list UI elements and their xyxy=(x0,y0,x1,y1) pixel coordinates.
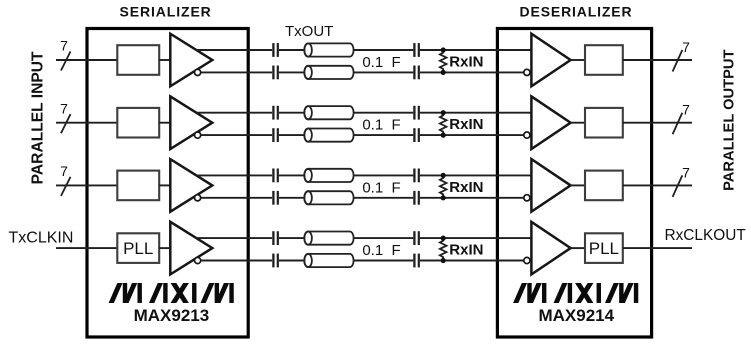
output register block 2 xyxy=(585,108,623,138)
wire: receiver 2 to output register xyxy=(571,122,585,124)
wire: parallel input 3 xyxy=(56,184,117,186)
wire: C2A to cable xyxy=(279,112,305,114)
capacitor C3D (series, - line) xyxy=(413,191,415,205)
MAXIM logo (serializer) xyxy=(109,283,234,303)
termination resistor R4 with junction dots xyxy=(440,238,447,260)
capacitor C1D (series, - line) xyxy=(413,66,415,80)
svg-text:TxCLKIN: TxCLKIN xyxy=(9,229,74,246)
wire: T4A to C4C xyxy=(354,237,414,239)
bus slash input 1 xyxy=(61,52,71,71)
capacitor C1A (series, + line) xyxy=(272,43,274,57)
svg-text:RxIN: RxIN xyxy=(449,54,483,71)
input register block 3 xyxy=(117,171,159,201)
svg-text:TxOUT: TxOUT xyxy=(285,23,333,40)
svg-text:7: 7 xyxy=(682,39,690,55)
wire: register 3 to driver xyxy=(159,184,170,186)
inversion bubble receiver 2 xyxy=(524,132,530,138)
inversion bubble driver 1 xyxy=(195,69,201,75)
wire: C3D to receiver - input xyxy=(420,197,524,199)
wire: C1A to cable xyxy=(279,49,305,51)
svg-text:DESERIALIZER: DESERIALIZER xyxy=(520,4,633,20)
capacitor C2D (series, - line) xyxy=(413,128,415,142)
wire: C2B to cable xyxy=(279,134,305,136)
svg-text:0.1 F: 0.1 F xyxy=(362,242,400,259)
bus slash output 1 xyxy=(673,50,683,72)
wire: C1C to receiver + input xyxy=(420,49,532,51)
input register block 2 xyxy=(117,108,159,138)
svg-text:PLL: PLL xyxy=(589,239,619,258)
wire: receiver 1 to output register xyxy=(571,59,585,61)
wire: driver 3 inverting output xyxy=(201,197,272,199)
svg-text:7: 7 xyxy=(60,100,68,116)
transmission line T1A (+ line) xyxy=(304,43,353,56)
wire: T4B to C4D xyxy=(354,260,414,262)
MAXIM logo (deserializer) xyxy=(513,283,638,303)
wire: C3A to cable xyxy=(279,174,305,176)
svg-text:SERIALIZER: SERIALIZER xyxy=(119,4,211,20)
wire: driver 1 noninverting output xyxy=(196,49,273,51)
capacitor C2A (series, + line) xyxy=(272,106,274,120)
wire: parallel output 4 xyxy=(623,247,692,249)
wire: T3A to C3C xyxy=(354,174,414,176)
capacitor C4D (series, - line) xyxy=(413,254,415,268)
svg-text:MAX9213: MAX9213 xyxy=(134,306,210,325)
svg-text:RxCLKOUT: RxCLKOUT xyxy=(665,227,747,244)
LVDS driver U1C xyxy=(170,159,212,212)
svg-text:0.1 F: 0.1 F xyxy=(362,54,400,71)
svg-text:MAX9214: MAX9214 xyxy=(538,306,614,325)
wire: parallel input 2 xyxy=(56,122,117,124)
transmission line T1B (- line) xyxy=(304,66,353,79)
bus slash output 3 xyxy=(673,175,683,197)
wire: C3B to cable xyxy=(279,197,305,199)
LVDS driver U1D xyxy=(170,222,212,275)
capacitor C3B (series, - line) xyxy=(272,191,274,205)
wire: driver 2 inverting output xyxy=(201,134,272,136)
wire: parallel output 1 xyxy=(623,59,692,61)
svg-text:PLL: PLL xyxy=(123,239,153,258)
inversion bubble receiver 1 xyxy=(524,69,530,75)
LVDS driver U1A xyxy=(170,34,212,87)
wire: C4C to receiver + input xyxy=(420,237,532,239)
wire: C4D to receiver - input xyxy=(420,260,524,262)
inversion bubble receiver 4 xyxy=(524,257,530,263)
transmission line T2B (- line) xyxy=(304,129,353,142)
svg-text:0.1 F: 0.1 F xyxy=(362,117,400,134)
serializer box MAX9213 xyxy=(87,29,248,338)
deserializer box MAX9214 xyxy=(497,29,651,338)
capacitor C2B (series, - line) xyxy=(272,128,274,142)
transmission line T3A (+ line) xyxy=(304,169,353,182)
PLL block (deserializer) xyxy=(585,233,623,263)
wire: C1B to cable xyxy=(279,71,305,73)
wire: register 2 to driver xyxy=(159,122,170,124)
transmission line T3B (- line) xyxy=(304,191,353,204)
capacitor C1B (series, - line) xyxy=(272,66,274,80)
wire: C4B to cable xyxy=(279,260,305,262)
transmission line T2A (+ line) xyxy=(304,106,353,119)
LVDS receiver U2B xyxy=(531,96,570,149)
termination resistor R2 with junction dots xyxy=(440,113,447,135)
wire: driver 1 inverting output xyxy=(201,71,272,73)
bus slash input 3 xyxy=(61,177,71,196)
capacitor C2C (series, + line) xyxy=(413,106,415,120)
output register block 3 xyxy=(585,171,623,201)
bus slash input 2 xyxy=(61,114,71,133)
wire: driver 3 noninverting output xyxy=(196,174,273,176)
wire: C4A to cable xyxy=(279,237,305,239)
output register block 1 xyxy=(585,45,623,75)
capacitor C4B (series, - line) xyxy=(272,254,274,268)
wire: receiver 3 to output register xyxy=(571,184,585,186)
svg-text:0.1 F: 0.1 F xyxy=(362,179,400,196)
capacitor C3C (series, + line) xyxy=(413,169,415,183)
svg-text:RxIN: RxIN xyxy=(449,116,483,133)
LVDS receiver U2C xyxy=(531,159,570,212)
wire: T1B to C1D xyxy=(354,71,414,73)
svg-text:PARALLEL INPUT: PARALLEL INPUT xyxy=(29,51,46,184)
wire: C3C to receiver + input xyxy=(420,174,532,176)
wire: receiver 4 to output register xyxy=(571,247,585,249)
wire: driver 2 noninverting output xyxy=(196,112,273,114)
svg-text:7: 7 xyxy=(682,102,690,118)
LVDS receiver U2D xyxy=(531,222,570,275)
wire: C2C to receiver + input xyxy=(420,112,532,114)
transmission line T4A (+ line) xyxy=(304,232,353,245)
wire: driver 4 inverting output xyxy=(201,260,272,262)
wire: T1A to C1C xyxy=(354,49,414,51)
wire: register 4 to driver xyxy=(159,247,170,249)
svg-text:PARALLEL OUTPUT: PARALLEL OUTPUT xyxy=(721,49,737,190)
wire: parallel input 1 xyxy=(56,59,117,61)
capacitor C1C (series, + line) xyxy=(413,43,415,57)
wire: driver 4 noninverting output xyxy=(196,237,273,239)
inversion bubble driver 4 xyxy=(195,257,201,263)
wire: T2A to C2C xyxy=(354,112,414,114)
wire: C2D to receiver - input xyxy=(420,134,524,136)
input register block 1 xyxy=(117,45,159,75)
termination resistor R3 with junction dots xyxy=(440,175,447,197)
capacitor C4A (series, + line) xyxy=(272,231,274,245)
wire: T2B to C2D xyxy=(354,134,414,136)
svg-text:RxIN: RxIN xyxy=(449,179,483,196)
bus slash output 2 xyxy=(673,113,683,135)
LVDS receiver U2A xyxy=(531,34,570,87)
svg-text:7: 7 xyxy=(682,164,690,180)
wire: T3B to C3D xyxy=(354,197,414,199)
svg-text:RxIN: RxIN xyxy=(449,242,483,259)
wire: parallel output 2 xyxy=(623,122,692,124)
svg-text:7: 7 xyxy=(60,163,68,179)
transmission line T4B (- line) xyxy=(304,254,353,267)
wire: register 1 to driver xyxy=(159,59,170,61)
inversion bubble driver 2 xyxy=(195,132,201,138)
capacitor C4C (series, + line) xyxy=(413,231,415,245)
wire: parallel input 4 xyxy=(56,247,117,249)
wire: parallel output 3 xyxy=(623,184,692,186)
capacitor C3A (series, + line) xyxy=(272,169,274,183)
LVDS driver U1B xyxy=(170,96,212,149)
wire: C1D to receiver - input xyxy=(420,71,524,73)
inversion bubble receiver 3 xyxy=(524,195,530,201)
inversion bubble driver 3 xyxy=(195,195,201,201)
svg-text:7: 7 xyxy=(60,38,68,54)
termination resistor R1 with junction dots xyxy=(440,50,447,72)
PLL block (serializer) xyxy=(117,233,159,263)
